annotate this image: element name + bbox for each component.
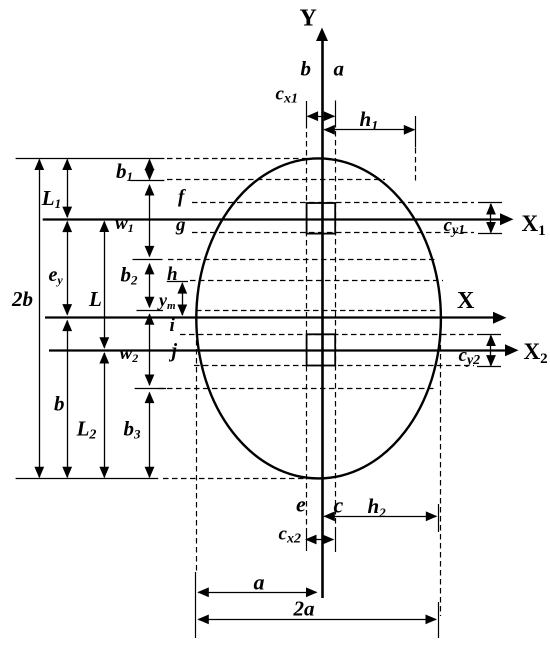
svg-text:h: h bbox=[167, 264, 178, 285]
svg-text:c: c bbox=[334, 493, 344, 518]
svg-text:2b: 2b bbox=[11, 287, 33, 311]
svg-text:b: b bbox=[54, 392, 65, 416]
svg-text:2a: 2a bbox=[293, 597, 315, 621]
svg-text:b: b bbox=[301, 56, 312, 80]
svg-text:a: a bbox=[334, 56, 345, 80]
svg-text:Y: Y bbox=[300, 6, 317, 32]
svg-text:a: a bbox=[254, 570, 265, 595]
svg-text:i: i bbox=[170, 315, 176, 336]
svg-text:g: g bbox=[175, 215, 186, 236]
svg-text:e: e bbox=[296, 492, 306, 517]
svg-text:L: L bbox=[88, 287, 102, 311]
svg-text:X: X bbox=[457, 288, 475, 314]
